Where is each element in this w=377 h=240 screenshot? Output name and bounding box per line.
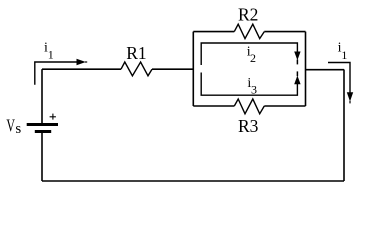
svg-text:V: V — [6, 116, 15, 136]
svg-text:1: 1 — [341, 48, 347, 62]
resistor R1 — [121, 62, 152, 76]
wire R1 to parallel block — [152, 68, 193, 70]
wire bottom horizontal — [42, 180, 344, 182]
wire from parallel block to right corner — [306, 69, 345, 71]
resistor R2 — [234, 24, 264, 38]
svg-text:s: s — [15, 121, 21, 137]
current arrow i1 right — [328, 63, 353, 104]
svg-text:2: 2 — [250, 51, 256, 65]
wire below battery — [41, 133, 43, 181]
current arrow i1 left — [35, 59, 87, 85]
svg-text:3: 3 — [251, 82, 257, 96]
svg-text:R2: R2 — [238, 5, 258, 25]
wire right vertical — [343, 70, 345, 182]
current path i2 (inner top loop) — [201, 43, 300, 65]
outer loop bottom-left segment — [193, 105, 234, 107]
parallel block outer loop left edge — [192, 32, 194, 106]
outer loop right edge — [305, 32, 307, 106]
plus sign — [50, 114, 56, 120]
resistor R3 — [234, 99, 264, 114]
outer loop top-left segment — [193, 31, 234, 33]
svg-text:R1: R1 — [126, 43, 146, 63]
svg-text:R3: R3 — [238, 116, 259, 136]
svg-text:1: 1 — [48, 48, 54, 62]
wire top-left horizontal from source to R1 — [42, 68, 121, 70]
voltage source Vs battery — [27, 123, 58, 133]
outer loop bottom-right segment — [264, 105, 305, 107]
current path i3 (inner bottom loop) — [201, 71, 300, 95]
outer loop top-right segment — [264, 31, 305, 33]
wire left vertical to battery — [41, 69, 43, 123]
